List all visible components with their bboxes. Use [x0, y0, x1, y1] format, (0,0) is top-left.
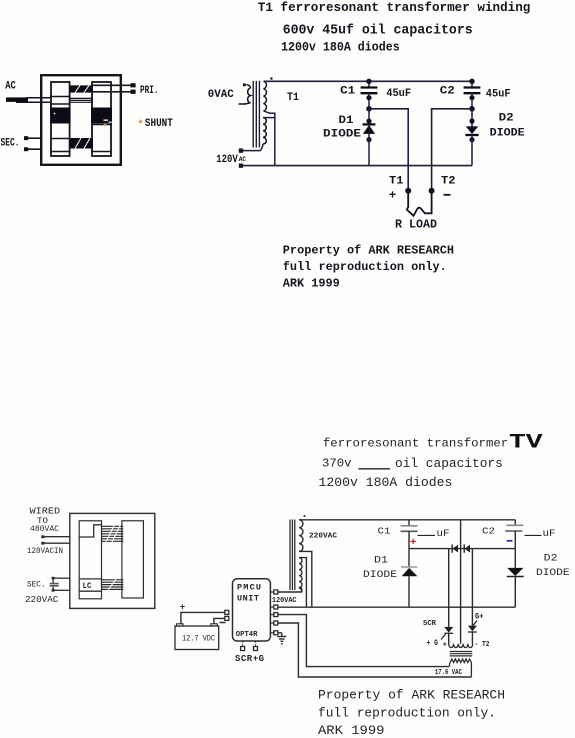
svg-text:120VACIN: 120VACIN — [27, 547, 63, 556]
center tap vertical — [460, 520, 462, 644]
svg-text:370v: 370v — [322, 457, 352, 471]
svg-text:G+: G+ — [475, 613, 484, 622]
svg-text:C2: C2 — [482, 525, 495, 536]
diode D2 — [465, 109, 478, 166]
svg-text:C1: C1 — [378, 525, 391, 536]
label - — [220, 622, 226, 624]
speckles in right winding band — [104, 120, 109, 121]
svg-text:WIRED: WIRED — [30, 506, 61, 517]
svg-text:SCR+G: SCR+G — [235, 654, 264, 664]
svg-text:Property of ARK RESEARCH: Property of ARK RESEARCH — [318, 688, 505, 703]
AC input wires — [6, 97, 50, 102]
center wire with steering diodes — [409, 548, 515, 550]
svg-text:T2: T2 — [441, 175, 456, 187]
primary coil 0VAC — [239, 85, 251, 105]
svg-text:AC: AC — [239, 156, 246, 163]
shunt marker dot — [138, 119, 142, 123]
svg-text:+: + — [443, 642, 447, 650]
left limb black winding band — [50, 108, 71, 124]
svg-text:SHUNT: SHUNT — [145, 118, 173, 130]
svg-text:T1: T1 — [287, 92, 299, 104]
svg-text:D2: D2 — [499, 112, 514, 124]
lower winding leads — [449, 663, 452, 667]
120VAC terminal squares — [239, 149, 243, 153]
PMCU left pins — [225, 610, 229, 620]
svg-text:ARK 1999: ARK 1999 — [283, 277, 340, 291]
svg-text:TV: TV — [509, 432, 543, 455]
battery 12.7 VDC — [175, 624, 219, 650]
top rail bottom schematic — [302, 519, 515, 521]
svg-text:17.6 VAC: 17.6 VAC — [435, 669, 462, 677]
svg-text:DIODE: DIODE — [536, 568, 570, 579]
svg-text:C2: C2 — [440, 85, 455, 97]
center top winding hatch — [71, 85, 94, 92]
svg-text:120VAC: 120VAC — [272, 597, 297, 605]
center bottom winding hatch — [71, 138, 94, 149]
svg-text:PMCU: PMCU — [237, 583, 261, 593]
center bottom wire bundle — [102, 580, 124, 590]
labels WIRED TO 480VAC — [25, 506, 63, 606]
wire C2 junction to T2 terminal — [432, 109, 472, 191]
SCR branch right vertical — [471, 549, 473, 626]
capacitor C1 — [361, 79, 378, 112]
pin wire to transformer bottom — [278, 587, 302, 592]
tick above secondary — [270, 77, 272, 79]
svg-text:D2: D2 — [544, 553, 558, 564]
svg-text:uF: uF — [437, 529, 450, 540]
svg-text:1200v 180A diodes: 1200v 180A diodes — [319, 475, 453, 490]
property text top — [283, 244, 454, 291]
center middle wire bundle — [71, 98, 94, 102]
core outer frame — [41, 75, 121, 165]
diode D2 (bottom) — [507, 549, 524, 608]
battery + wire — [181, 612, 225, 624]
title text bottom — [319, 432, 543, 490]
svg-text:+: + — [389, 189, 397, 203]
svg-text:PRI.: PRI. — [140, 85, 159, 97]
PMCU right pins — [274, 590, 278, 635]
PMCU unit box — [233, 579, 271, 641]
svg-text:1200v 180A diodes: 1200v 180A diodes — [281, 39, 400, 54]
svg-text:+ G: + G — [427, 639, 439, 648]
svg-text:DIODE: DIODE — [323, 128, 361, 140]
left limb section lines — [79, 578, 101, 580]
top rail wire — [264, 80, 473, 82]
battery - wire — [214, 618, 225, 624]
svg-text:220VAC: 220VAC — [25, 594, 59, 605]
svg-text:600v 45uf oil capacitors: 600v 45uf oil capacitors — [283, 24, 473, 39]
SEC terminal with capacitor — [50, 577, 70, 592]
center top wire bundle — [102, 526, 124, 541]
left limb winding section lines — [50, 97, 112, 152]
winding leads — [299, 520, 312, 607]
transformer T1 core — [253, 81, 259, 148]
svg-text:LC: LC — [83, 582, 92, 591]
wire C1 junction to T1 terminal — [369, 109, 408, 191]
bottom rail wire — [243, 165, 472, 167]
svg-text:45uF: 45uF — [386, 88, 411, 100]
SCR branch left vertical — [448, 549, 450, 627]
svg-text:oil capacitors: oil capacitors — [395, 456, 503, 471]
svg-text:uF: uF — [543, 529, 556, 540]
title text top — [258, 0, 531, 54]
svg-text:+: + — [180, 603, 185, 613]
svg-text:D1: D1 — [339, 115, 354, 127]
ground at PMCU pin — [277, 633, 286, 642]
diode D1 (bottom) — [401, 549, 417, 608]
capacitor C2 — [464, 79, 481, 112]
svg-text:C1: C1 — [340, 85, 355, 97]
svg-text:T1: T1 — [389, 175, 404, 187]
core lines — [450, 652, 473, 656]
120VACIN input wires — [41, 535, 70, 544]
load resistor R LOAD — [407, 191, 432, 216]
T1 output terminal — [405, 188, 411, 194]
svg-text:ferroresonant transformer: ferroresonant transformer — [323, 436, 508, 450]
secondary winding bottom — [299, 558, 302, 588]
SCR 2 — [468, 621, 477, 644]
T1 secondary lower winding — [263, 118, 266, 144]
svg-text:D1: D1 — [374, 556, 388, 567]
step wire inside left limb — [79, 525, 101, 537]
svg-text:Property of ARK RESEARCH: Property of ARK RESEARCH — [283, 244, 454, 258]
capacitor C1 (bottom) — [401, 520, 418, 549]
svg-text:120V: 120V — [216, 154, 238, 166]
upper winding — [449, 644, 473, 648]
svg-text:SCR: SCR — [423, 620, 436, 628]
steering diode right — [464, 544, 470, 552]
T1 secondary upper winding — [264, 81, 267, 111]
orange marker inside core — [103, 123, 107, 127]
svg-text:220VAC: 220VAC — [309, 532, 338, 540]
svg-text:12.7 VDC: 12.7 VDC — [182, 634, 215, 643]
svg-text:SEC.: SEC. — [27, 580, 46, 590]
svg-text:AC: AC — [5, 81, 16, 93]
right limb black winding band — [91, 108, 112, 124]
svg-text:45uF: 45uF — [486, 89, 511, 101]
lower winding — [450, 659, 471, 663]
T2 output terminal — [429, 188, 435, 194]
svg-text:DIODE: DIODE — [490, 128, 525, 140]
capacitor C2 (bottom) — [505, 520, 523, 549]
PRI terminal wires — [93, 85, 131, 92]
svg-text:+: + — [410, 537, 416, 549]
property text bottom — [318, 688, 505, 738]
PMCU bottom pins dashed — [243, 641, 256, 647]
svg-text:- T2: - T2 — [475, 641, 490, 649]
core lines — [290, 520, 295, 591]
svg-text:full reproduction only.: full reproduction only. — [318, 706, 496, 721]
svg-text:0VAC: 0VAC — [208, 89, 234, 101]
winding interconnect wires — [243, 111, 275, 166]
SEC terminal wires — [24, 136, 42, 151]
svg-text:OPT4R: OPT4R — [236, 631, 258, 639]
svg-text:SEC.: SEC. — [1, 138, 20, 150]
blue minus — [507, 540, 513, 542]
pin wire to 17.6VAC right — [278, 623, 472, 677]
svg-text:ARK 1999: ARK 1999 — [318, 723, 385, 738]
diode D1 — [363, 109, 376, 166]
SCR 1 — [441, 627, 453, 644]
svg-text:UNIT: UNIT — [237, 594, 259, 604]
pin wire to 17.6VAC left — [278, 615, 449, 667]
svg-text:480VAC: 480VAC — [30, 524, 59, 534]
bottom rail bottom schematic — [278, 606, 516, 608]
core outer frame (bottom) — [70, 513, 155, 608]
svg-text:T1 ferroresonant transformer w: T1 ferroresonant transformer winding — [258, 0, 531, 15]
primary winding top — [299, 520, 303, 552]
svg-text:DIODE: DIODE — [363, 570, 397, 581]
svg-text:full reproduction only.: full reproduction only. — [283, 260, 447, 274]
steering diode left — [452, 544, 458, 552]
svg-text:R LOAD: R LOAD — [395, 219, 437, 232]
tick above 220VAC winding — [304, 515, 306, 517]
